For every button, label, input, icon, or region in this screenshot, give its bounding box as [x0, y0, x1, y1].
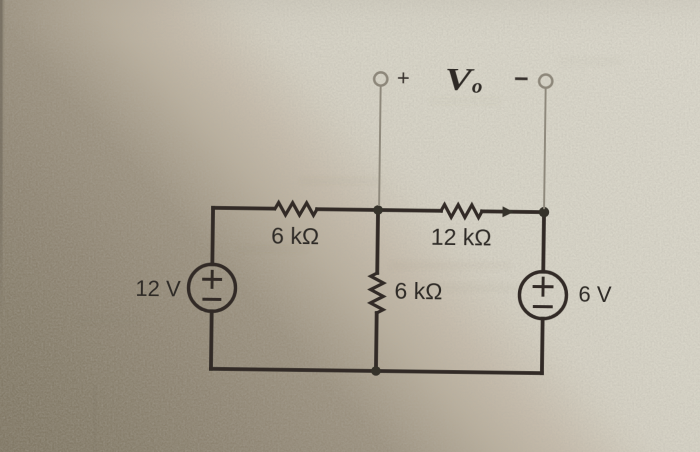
wire: left branch upper: [210, 208, 215, 264]
wire: left branch lower: [209, 311, 214, 368]
wire: top-left lead: [213, 206, 274, 211]
wire: top middle segment: [317, 209, 441, 211]
resistor R1 6k horizontal zigzag: [275, 203, 317, 216]
terminal circle right: [539, 74, 552, 87]
V2 minus sign: [534, 305, 551, 308]
junction node top right: [539, 207, 550, 218]
source V2 6V circle: [519, 271, 567, 319]
terminal circle left: [374, 72, 387, 85]
svg-text:6 V: 6 V: [578, 282, 612, 307]
resistor R3 6k vertical zigzag: [370, 273, 383, 313]
svg-text:12 V: 12 V: [135, 276, 181, 302]
wire: right branch upper: [541, 212, 546, 271]
terminal lead wire left (gray): [379, 86, 381, 206]
source V1 12V circle: [188, 264, 236, 312]
svg-text:6 kΩ: 6 kΩ: [271, 223, 319, 250]
terminal lead wire right (gray): [544, 88, 546, 209]
label - for Vo: [515, 77, 527, 80]
svg-text:12 kΩ: 12 kΩ: [431, 224, 492, 251]
wire: middle branch lower: [374, 313, 379, 371]
resistor R2 12k zigzag: [441, 205, 482, 218]
wire: top right segment to corner: [482, 209, 544, 214]
V1 plus sign: [204, 271, 221, 287]
current arrow on 12k wire: [503, 207, 513, 216]
svg-text:6 kΩ: 6 kΩ: [394, 278, 442, 305]
wire: bottom: [211, 369, 542, 373]
svg-text:+: +: [397, 65, 410, 90]
svg-text:o: o: [472, 74, 483, 98]
wire: middle branch upper: [375, 210, 380, 273]
V1 minus sign: [204, 298, 220, 301]
junction node top middle: [373, 205, 383, 215]
V2 plus sign: [534, 278, 552, 295]
junction node bottom middle: [371, 366, 381, 376]
wire: right branch lower: [540, 319, 545, 373]
